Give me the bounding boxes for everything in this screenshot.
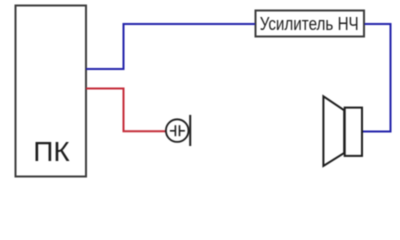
microphone capacitor right plate — [179, 125, 181, 136]
wire blue: PC output to amplifier input — [86, 24, 255, 69]
block amplifier (Усилитель НЧ) — [256, 11, 365, 37]
svg-text:ПК: ПК — [33, 136, 70, 167]
block PC (ПК) — [16, 6, 87, 177]
speaker LS1 driver (rectangle) — [345, 108, 362, 156]
microphone capacitor left lead — [170, 130, 175, 132]
speaker LS1 horn (trapezoid) — [323, 96, 344, 166]
microphone M1 body (circle) — [166, 119, 189, 142]
svg-text:Усилитель НЧ: Усилитель НЧ — [260, 14, 359, 34]
microphone membrane plate (vertical bar) — [189, 115, 191, 146]
wire blue: amplifier output to speaker — [363, 24, 391, 132]
wire red: PC input to microphone — [86, 89, 166, 132]
microphone capacitor right lead — [180, 130, 185, 132]
microphone capacitor left plate — [174, 125, 176, 136]
